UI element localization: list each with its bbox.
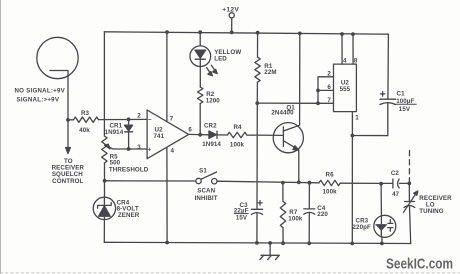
wire R6 to C2	[340, 182, 393, 184]
svg-text:LED: LED	[214, 56, 227, 63]
svg-text:1: 1	[355, 115, 359, 122]
zener CR4 circle	[93, 197, 115, 219]
node 555 pin6	[316, 89, 320, 93]
svg-text:7: 7	[170, 115, 174, 122]
svg-text:4: 4	[171, 147, 175, 154]
svg-text:100k: 100k	[323, 188, 338, 195]
node 555 pin8/rail	[351, 32, 355, 36]
node output/R2	[198, 133, 202, 137]
wire top +12V rail	[104, 32, 388, 34]
node Q1 emitter/scan	[297, 180, 301, 184]
variable capacitor receiver LO tuning	[408, 183, 410, 201]
capacitor C2 47 plates	[392, 179, 394, 188]
switch S1 lever	[201, 172, 217, 179]
capacitor C1 plates	[380, 98, 396, 100]
svg-text:3: 3	[137, 144, 141, 151]
wire node to squelch arrow	[67, 120, 69, 150]
svg-text:100k: 100k	[288, 216, 303, 223]
node input/R3	[66, 118, 70, 122]
wire dashed stub above LO node	[408, 151, 410, 182]
svg-text:15V: 15V	[236, 215, 248, 222]
svg-text:CONTROL: CONTROL	[52, 178, 83, 185]
wire input tab down to R3 node	[50, 71, 68, 120]
ground symbol	[261, 254, 279, 256]
node CR3/ground	[380, 242, 384, 246]
svg-text:47: 47	[392, 191, 400, 198]
ground symbol stub	[269, 243, 271, 255]
resistor R7 100k	[282, 183, 284, 202]
svg-text:15V: 15V	[399, 106, 411, 113]
resistor R6 100k	[319, 180, 340, 185]
wire CR4 to bottom rail	[103, 220, 105, 243]
wire op-amp output pin 6	[189, 133, 209, 135]
wire CR2 to R4	[217, 134, 228, 136]
wire scan line: R5/CR4 node to S1	[105, 180, 196, 182]
node R1/rail	[256, 31, 260, 35]
LED circle (yellow LED)	[190, 46, 211, 67]
wire left rail top segment (R5 feed)	[103, 32, 105, 136]
svg-text:220pF: 220pF	[353, 224, 372, 231]
svg-text:R3: R3	[81, 110, 90, 117]
Q1 collector	[283, 34, 299, 131]
capacitor C3 plates	[251, 208, 262, 210]
node +12V/rail	[230, 31, 234, 35]
wire 555 pin 8 to rail	[352, 34, 354, 64]
svg-text:741: 741	[153, 133, 164, 140]
svg-text:SeekIC.com: SeekIC.com	[386, 257, 453, 273]
LED branch wire from rail	[199, 32, 201, 46]
wire R1 to timing node, down to C3	[256, 82, 258, 103]
resistor R1 22M	[255, 57, 260, 82]
svg-text:6: 6	[327, 84, 331, 91]
svg-text:500: 500	[110, 160, 121, 167]
svg-text:SCAN: SCAN	[197, 188, 215, 195]
svg-text:+12V: +12V	[222, 6, 239, 13]
wire pin1/C1 link	[352, 135, 387, 137]
LED diode symbol	[195, 50, 206, 58]
svg-text:R6: R6	[326, 172, 335, 179]
svg-text:40k: 40k	[79, 127, 90, 134]
wire R1 branch from rail	[257, 33, 259, 57]
svg-text:CR2: CR2	[204, 123, 217, 130]
varactor CR3 cap part	[389, 220, 391, 224]
svg-text:INHIBIT: INHIBIT	[195, 195, 218, 202]
wire op-amp pin 7 to +12V rail	[166, 32, 168, 121]
zener CR4 symbol	[103, 197, 105, 205]
svg-text:2: 2	[327, 70, 331, 77]
wire bottom ground rail	[104, 242, 411, 243]
svg-text:1N914: 1N914	[202, 141, 221, 148]
Q1 base bar	[282, 127, 284, 147]
node LED/rail	[198, 30, 202, 34]
node C4/ground	[307, 241, 311, 245]
svg-text:7: 7	[327, 97, 331, 104]
node CR1 anode	[127, 118, 131, 122]
svg-text:6: 6	[188, 126, 192, 133]
node C2/LO	[407, 182, 411, 186]
diode CR3 220pF varactor branch	[380, 184, 382, 216]
svg-text:8: 8	[354, 57, 358, 64]
node 555 pin1/C1	[351, 134, 355, 138]
diode CR2 1N914	[209, 131, 216, 138]
input terminal circle (signal source)	[37, 37, 78, 78]
LED emission arrows	[207, 68, 212, 75]
node R7/ground	[281, 241, 285, 245]
capacitor C3 22uF plus sign	[258, 202, 262, 204]
Q1 emitter	[283, 141, 295, 148]
svg-text:+: +	[147, 147, 151, 154]
svg-text:TUNING: TUNING	[419, 208, 443, 215]
wire S1 to varactor line	[217, 181, 319, 183]
node R5/CR4/scan	[103, 179, 107, 183]
node ground symbol	[268, 241, 272, 245]
wire C2 to LO node	[400, 182, 410, 184]
wire R2 to output node	[199, 104, 201, 135]
svg-text:C2: C2	[391, 170, 400, 177]
svg-text:SIGNAL:>+9V: SIGNAL:>+9V	[17, 96, 60, 103]
svg-text:1N914: 1N914	[105, 129, 124, 136]
wire +12V stem	[231, 18, 233, 33]
wire 555 pin 6 stub	[318, 89, 334, 91]
switch S1 terminals	[196, 178, 201, 183]
svg-text:C1: C1	[397, 90, 406, 97]
resistor R4	[228, 132, 247, 137]
svg-text:RECEIVER: RECEIVER	[419, 195, 452, 202]
svg-text:2: 2	[137, 112, 141, 119]
wire 555 pin 4 to rail	[341, 34, 343, 64]
op-amp U2 741 triangle	[147, 110, 189, 159]
wire op-amp pin 3 to R5 wiper	[106, 146, 147, 149]
node C4 top	[308, 181, 312, 185]
IC U2 555 box	[334, 64, 357, 112]
svg-text:−: −	[148, 116, 152, 123]
wire 555 pin 7 stub	[318, 102, 334, 104]
node timing/555 pins	[316, 101, 320, 105]
node CR3 top	[379, 182, 383, 186]
varactor CR3 circle	[374, 215, 396, 237]
wire C1 branch from rail corner	[387, 34, 390, 99]
svg-text:THRESHOLD: THRESHOLD	[109, 167, 149, 174]
svg-text:220: 220	[317, 211, 328, 218]
svg-text:ZENER: ZENER	[118, 212, 140, 219]
diode CR1 1N914	[128, 119, 130, 125]
wire timing node to 555 pins	[257, 102, 318, 104]
node R7 top	[281, 181, 285, 185]
wire R5 bottom to CR4	[104, 163, 106, 197]
node timing/R1	[255, 101, 259, 105]
svg-text:SQUELCH: SQUELCH	[52, 171, 83, 178]
node 555 pin4/rail	[340, 32, 344, 36]
svg-text:555: 555	[340, 86, 351, 93]
terminal +12V circle	[229, 13, 234, 18]
svg-text:2N4400: 2N4400	[271, 110, 294, 117]
wire op-amp pin 4 to ground rail	[166, 147, 168, 242]
label C3 underline	[234, 213, 249, 215]
svg-text:S1: S1	[199, 168, 207, 175]
node Q1 collector/rail	[298, 32, 302, 36]
resistor R2 1200	[198, 87, 203, 104]
svg-text:1200: 1200	[206, 98, 221, 105]
wire 555 pin2/6 tie bracket	[318, 77, 334, 104]
wire R4 to Q1 base	[247, 134, 284, 136]
wire R3 to op-amp pin 2	[99, 118, 148, 120]
svg-text:NO SIGNAL:+9V: NO SIGNAL:+9V	[15, 88, 66, 95]
wire C3 to ground rail	[256, 213, 258, 243]
svg-text:R4: R4	[233, 124, 242, 131]
wire CR3 to ground rail	[381, 237, 383, 243]
wire Q1 emitter to scan line	[298, 150, 300, 182]
wire 555 pin 1 to ground rail	[351, 112, 353, 244]
node 555 pin1/ground	[350, 242, 354, 246]
svg-text:4: 4	[343, 57, 347, 64]
label C1 underline	[396, 103, 417, 105]
node CR1 cathode	[127, 147, 131, 151]
transistor Q1 2N4400 circle	[273, 123, 303, 153]
node pin7/rail	[165, 30, 169, 34]
node pin4/ground	[165, 241, 169, 245]
node C3/ground	[255, 241, 259, 245]
svg-text:100k: 100k	[230, 141, 245, 148]
svg-text:22M: 22M	[264, 69, 276, 76]
capacitor C4 220	[308, 183, 310, 209]
resistor R5 (500 threshold pot)	[102, 136, 107, 163]
resistor R3	[68, 119, 74, 121]
capacitor C1 plus sign	[380, 93, 384, 95]
